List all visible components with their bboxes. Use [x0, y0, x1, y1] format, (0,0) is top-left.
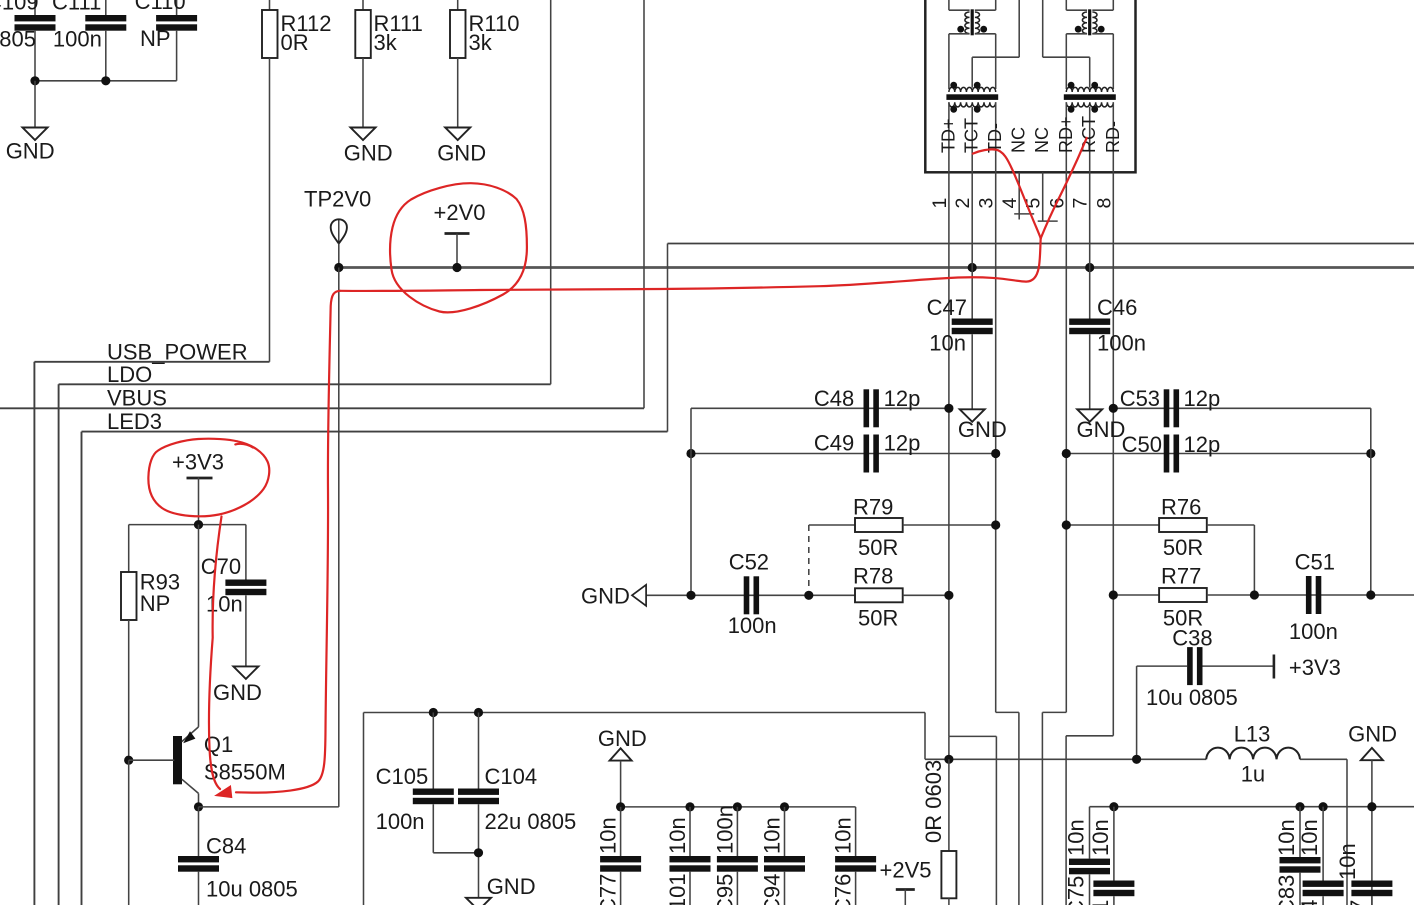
svg-text:7: 7 [1070, 198, 1092, 209]
svg-text:C38: C38 [1172, 626, 1212, 651]
svg-text:L13: L13 [1234, 722, 1271, 747]
svg-text:C109: C109 [0, 0, 39, 14]
svg-text:12p: 12p [1184, 432, 1221, 457]
svg-text:10n: 10n [929, 331, 966, 356]
svg-text:C81: C81 [1088, 900, 1113, 905]
svg-text:LDO: LDO [107, 362, 152, 387]
svg-text:12p: 12p [1184, 386, 1221, 411]
svg-text:10n: 10n [1274, 819, 1299, 856]
svg-text:50R: 50R [858, 535, 898, 560]
svg-text:TCT: TCT [962, 118, 982, 153]
svg-text:C110: C110 [135, 0, 186, 14]
svg-text:8: 8 [1093, 198, 1115, 209]
svg-text:1u: 1u [1241, 762, 1265, 787]
svg-text:C52: C52 [729, 550, 769, 575]
svg-text:3k: 3k [469, 30, 493, 55]
svg-text:RD-: RD- [1103, 121, 1123, 153]
svg-text:50R: 50R [858, 606, 898, 631]
svg-text:GND: GND [437, 141, 486, 166]
svg-text:C83: C83 [1274, 875, 1299, 905]
svg-text:100n: 100n [1097, 331, 1146, 356]
svg-text:R79: R79 [853, 495, 893, 520]
svg-text:100n: 100n [376, 809, 425, 834]
svg-text:NP: NP [140, 26, 171, 51]
svg-text:VBUS: VBUS [107, 386, 167, 411]
svg-text:C94: C94 [760, 874, 785, 905]
svg-text:100n: 100n [1289, 619, 1338, 644]
svg-text:GND: GND [581, 584, 630, 609]
svg-text:GND: GND [6, 139, 55, 164]
svg-text:10n: 10n [665, 817, 690, 854]
svg-text:C111: C111 [52, 0, 101, 14]
svg-text:C76: C76 [831, 874, 856, 905]
svg-text:R76: R76 [1161, 495, 1201, 520]
svg-text:100n: 100n [728, 613, 777, 638]
svg-text:C53: C53 [1120, 386, 1160, 411]
svg-text:4: 4 [999, 198, 1021, 209]
svg-text:10n: 10n [831, 817, 856, 854]
svg-text:3: 3 [976, 198, 998, 209]
svg-text:S8550M: S8550M [204, 760, 286, 785]
svg-text:C95: C95 [712, 874, 737, 905]
svg-text:0R 0603: 0R 0603 [921, 760, 946, 843]
svg-text:1: 1 [929, 198, 951, 209]
svg-text:C84: C84 [206, 834, 246, 859]
svg-text:C105: C105 [376, 764, 429, 789]
svg-text:R78: R78 [853, 564, 893, 589]
svg-text:100n: 100n [712, 805, 737, 854]
svg-text:GND: GND [344, 141, 393, 166]
svg-text:+3V3: +3V3 [172, 450, 224, 475]
svg-text:C48: C48 [814, 386, 854, 411]
svg-text:+2V5: +2V5 [880, 858, 932, 883]
svg-text:10u 0805: 10u 0805 [1146, 685, 1238, 710]
svg-text:NC: NC [1009, 127, 1029, 153]
svg-text:NP: NP [140, 591, 171, 616]
svg-text:GND: GND [487, 874, 536, 899]
svg-text:R77: R77 [1161, 564, 1201, 589]
svg-text:22u 0805: 22u 0805 [485, 809, 577, 834]
svg-text:LED3: LED3 [107, 409, 162, 434]
svg-text:+2V0: +2V0 [434, 200, 486, 225]
svg-text:10n: 10n [206, 592, 243, 617]
svg-text:C77: C77 [596, 874, 621, 905]
svg-text:0R: 0R [281, 30, 309, 55]
svg-text:C101: C101 [665, 873, 690, 905]
svg-text:GND: GND [958, 417, 1007, 442]
svg-text:RD+: RD+ [1056, 116, 1076, 153]
svg-text:0805: 0805 [0, 27, 36, 52]
svg-text:C84: C84 [1297, 900, 1322, 905]
svg-text:10n: 10n [760, 817, 785, 854]
svg-text:C87: C87 [1346, 900, 1371, 905]
svg-text:+3V3: +3V3 [1289, 655, 1341, 680]
svg-text:GND: GND [213, 680, 262, 705]
svg-text:10n: 10n [1335, 843, 1360, 880]
svg-text:C104: C104 [485, 764, 538, 789]
svg-text:2: 2 [952, 198, 974, 209]
svg-text:C51: C51 [1295, 550, 1335, 575]
svg-text:12p: 12p [884, 431, 921, 456]
svg-text:C70: C70 [201, 554, 241, 579]
svg-text:50R: 50R [1163, 535, 1203, 560]
svg-text:GND: GND [1348, 722, 1397, 747]
svg-text:TP2V0: TP2V0 [304, 187, 371, 212]
svg-text:3k: 3k [374, 30, 398, 55]
svg-text:C50: C50 [1122, 432, 1162, 457]
svg-text:C46: C46 [1097, 295, 1137, 320]
svg-text:USB_POWER: USB_POWER [107, 340, 248, 365]
svg-text:C47: C47 [927, 295, 967, 320]
svg-text:NC: NC [1032, 127, 1052, 153]
svg-text:GND: GND [1077, 417, 1126, 442]
svg-text:C49: C49 [814, 431, 854, 456]
svg-text:10n: 10n [596, 817, 621, 854]
svg-text:10n: 10n [1297, 819, 1322, 856]
svg-text:TD+: TD+ [938, 118, 958, 153]
svg-text:10n: 10n [1088, 819, 1113, 856]
svg-text:100n: 100n [53, 27, 102, 52]
svg-text:C75: C75 [1064, 876, 1089, 905]
svg-text:10n: 10n [1064, 819, 1089, 856]
svg-text:12p: 12p [884, 386, 921, 411]
svg-text:10u 0805: 10u 0805 [206, 877, 298, 902]
svg-text:GND: GND [598, 726, 647, 751]
